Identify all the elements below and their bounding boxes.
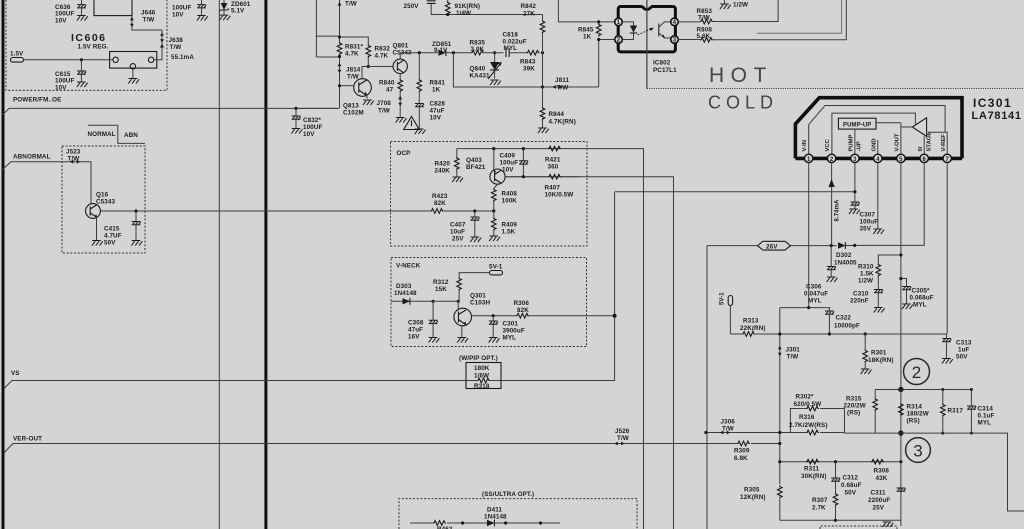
svg-text:T/W: T/W [617,435,629,442]
svg-text:R831*: R831* [345,44,363,51]
resistor R420 [435,149,464,183]
capacitor C310 [850,290,885,313]
resistor R308 [871,459,889,482]
svg-text:100uF: 100uF [860,219,879,226]
svg-text:C415: C415 [104,226,120,233]
resistor R301 [861,332,894,374]
svg-text:8.74mA: 8.74mA [835,199,841,222]
ground: Q16 emitter [92,217,103,245]
svg-text:J301: J301 [786,347,801,354]
svg-text:R317: R317 [948,408,964,415]
resistor R408 [492,184,518,211]
svg-text:R301: R301 [871,350,887,357]
pin 2 of IC301 (VCC) [825,138,836,162]
wire: IC802 pin2 feed [599,40,615,88]
diode D411 1N4148 [484,507,507,527]
svg-text:MYL: MYL [978,420,992,427]
capacitor C818 [503,32,527,58]
ground: Q301 emitter [457,326,468,343]
wire: R831 bypass top link y=36 [316,35,339,37]
svg-text:12K(RN): 12K(RN) [740,494,766,501]
svg-text:15K: 15K [435,286,447,293]
pin 7 of IC301 (V-REF) [941,134,952,163]
svg-text:47: 47 [386,87,394,94]
box: component box top-center (clipped) [94,0,132,16]
wire: rail y=192 from riser to IC301 pin3 [615,191,855,193]
resistor R315 [844,390,878,434]
resistor R313 [730,318,946,337]
svg-text:1N4148: 1N4148 [484,514,507,521]
svg-text:4: 4 [673,20,677,26]
wire: vertical bus x=219 [218,0,220,529]
svg-text:R832: R832 [375,46,391,53]
svg-text:5V-1: 5V-1 [489,264,503,271]
pin 6 of IC301 (0/STAGE) [918,132,933,163]
resistor R310 [858,264,881,290]
wire: pin4 internal stub [877,140,879,154]
svg-text:R840: R840 [379,80,395,87]
optocoupler IC802 PC17L1 body [618,0,675,89]
box: PUMP-UP block [838,118,876,129]
ground: Q840 [490,80,501,85]
svg-text:T/W: T/W [143,17,155,24]
diode D302 1N4005 [834,242,858,266]
resistor R840 [379,79,403,94]
junction: R307 bottom [834,519,837,522]
pin 3 of IC301 (PUMP-UP) [848,134,862,162]
svg-text:V-IN: V-IN [802,140,808,151]
wire: IC802 pin1 feed from top [558,0,615,22]
svg-text:IC301: IC301 [973,96,1012,110]
svg-text:180/2W: 180/2W [907,411,929,418]
svg-text:10uF: 10uF [450,229,465,236]
wire: bottom ground rail y=520.3 [780,519,901,521]
capacitor C314 [967,388,994,435]
transistor Q16 C5343 [86,192,116,219]
svg-text:10000pF: 10000pF [834,323,860,330]
svg-text:R420: R420 [435,161,451,168]
svg-text:C311: C311 [871,490,887,497]
capacitor C615 [55,60,88,92]
svg-text:1/2W: 1/2W [733,2,748,9]
node: 26V supply tag [758,241,791,250]
pin 2 of IC802 [615,36,623,44]
svg-text:Q801: Q801 [393,43,409,50]
wire: bottom rail y=433 out to right edge [706,433,1024,512]
svg-text:1K: 1K [583,34,592,41]
svg-text:C407: C407 [450,222,466,229]
capacitor 250V snubber (clipped at top) [404,1,436,10]
svg-text:GND: GND [871,138,877,151]
svg-text:10K/0.5W: 10K/0.5W [545,192,574,199]
svg-text:25V: 25V [873,505,885,512]
svg-text:47uF: 47uF [430,108,445,115]
svg-text:VS: VS [11,370,20,377]
wire: pin7 drop to C313 rail [946,163,948,334]
svg-text:R305: R305 [744,487,760,494]
wire: base line into Q301 [433,301,458,308]
svg-text:22K(RN): 22K(RN) [740,325,766,332]
svg-text:4.7K: 4.7K [345,51,359,58]
wire: top rail y=14.5 (250V cap to R842) [431,3,542,14]
jumper J306 [720,419,735,435]
transistor Q813 C102M [343,79,371,117]
junction: R835/C818 node [493,51,496,54]
junction: pin5-drop/461 rail [899,460,902,463]
svg-text:4.7K: 4.7K [375,53,389,60]
wire: R835 to C818 [484,52,504,54]
wire: regulator output to J638 riser [154,30,162,60]
symbol: opto coupling arrow [638,28,654,35]
svg-text:82K: 82K [434,200,446,207]
svg-text:0.068uF: 0.068uF [910,295,934,302]
svg-text:C306: C306 [806,284,822,291]
resistor R302* 620/0.5W [790,394,844,434]
resistor R311 [801,459,827,480]
svg-text:220nF: 220nF [850,298,869,305]
svg-text:C308: C308 [408,320,424,327]
junction: pin5/top rail heavy node [898,387,903,392]
junction: D411 cathode node [504,521,507,524]
node: NORMAL/ABN selector [88,125,146,143]
resistor R835 [470,40,486,56]
svg-text:R302*: R302* [796,394,814,401]
svg-text:J708: J708 [377,100,392,107]
svg-text:2.7K/2W(RS): 2.7K/2W(RS) [789,422,828,429]
svg-text:Q16: Q16 [96,192,109,199]
svg-text:2: 2 [830,157,834,163]
svg-text:D302: D302 [836,252,852,259]
svg-text:VCC: VCC [825,138,831,151]
svg-text:T/W: T/W [787,354,799,361]
svg-text:T/W: T/W [170,44,182,51]
svg-text:PUMP: PUMP [848,134,854,151]
junction: R310 tap node [899,253,902,256]
jumper J301 [778,346,800,361]
wire: VS line right of R318 to vertical riser [501,192,615,380]
junction: C832 tap on POWER line [294,107,297,110]
svg-text:C832*: C832* [303,117,321,124]
wire: output top rail y=389.5 [875,389,971,391]
svg-text:V-NECK: V-NECK [396,263,421,270]
svg-text:Q813: Q813 [343,103,359,110]
svg-text:3.0K: 3.0K [471,46,485,53]
svg-text:180K: 180K [474,365,490,372]
svg-text:COLD: COLD [708,93,778,113]
svg-text:C313: C313 [956,340,972,347]
junction: pin1 meets C322 rail [807,306,810,309]
transistor Q403 BF421 [466,157,505,184]
resistor R841 [417,53,445,104]
svg-text:4.7K(RN): 4.7K(RN) [549,119,576,126]
box: SS/ULTRA dashed enclosure [399,499,637,529]
wire: pin7 internal stub [945,132,947,154]
wire: VER-OUT line y=443.5 [4,444,779,453]
svg-text:2: 2 [617,38,621,44]
ground: snubber 1/2W [720,0,748,9]
wire: Q301 collector output y=315.7 [472,315,615,317]
resistor 91K(RN) 1/4W [445,0,480,17]
svg-text:250V: 250V [404,3,420,10]
svg-text:4.7UF: 4.7UF [104,233,122,240]
svg-text:C322: C322 [836,315,852,322]
svg-text:R407: R407 [545,185,561,192]
svg-text:C305*: C305* [912,288,930,295]
svg-text:R311: R311 [804,466,820,473]
svg-text:C102M: C102M [343,110,364,117]
svg-text:50V: 50V [956,354,968,361]
pin 3 of IC802 [671,36,679,44]
svg-text:V-OUT: V-OUT [894,133,900,151]
svg-text:PC17L1: PC17L1 [653,67,677,74]
junction: riser/461 rail [778,460,781,463]
svg-text:220/2W: 220/2W [844,403,866,410]
svg-text:10V: 10V [502,167,514,174]
svg-text:ABN: ABN [124,132,138,139]
wire: pin6 drop to D302 rail [858,163,924,246]
resistor R306 [514,300,530,318]
svg-text:(SS/ULTRA OPT.): (SS/ULTRA OPT.) [482,491,534,498]
svg-text:7: 7 [945,157,949,163]
wire: J811 rail y=87 [453,53,598,87]
svg-text:IC802: IC802 [653,60,671,67]
capacitor C407 [450,211,481,243]
capacitor C409 [500,147,529,178]
ground: J708 bottom [396,118,407,123]
svg-text:J526: J526 [615,428,630,435]
capacitor C307 [849,202,878,233]
svg-text:1N4005: 1N4005 [834,260,857,267]
svg-text:39K: 39K [523,66,535,73]
wire: feeder x=339.5 from top with T/W tag [296,0,357,108]
svg-text:C5343: C5343 [96,199,115,206]
svg-text:MYL: MYL [808,298,822,305]
svg-text:620/0.5W: 620/0.5W [794,401,822,408]
junction: pin5/bottom rail heavy node [898,430,903,435]
junction: C305 tap node [899,277,902,280]
svg-text:3: 3 [853,157,857,163]
junction: 91K bottom node [446,13,449,16]
IC802 internal LED [622,22,637,40]
resistor R316 2.7K/2W(RS) [789,414,845,435]
svg-text:100uF: 100uF [500,160,519,167]
svg-text:J811: J811 [555,77,569,84]
svg-text:R308: R308 [874,468,890,475]
svg-text:VER-OUT: VER-OUT [13,436,42,443]
svg-text:T/W: T/W [347,74,359,81]
svg-text:J646: J646 [141,10,156,17]
junction: Q403 emitter rail node [492,147,495,150]
svg-text:NORMAL: NORMAL [88,131,116,138]
capacitor C832* [291,108,322,138]
svg-text:C103H: C103H [470,300,490,307]
svg-text:3: 3 [913,442,923,461]
jumper J814 [338,63,361,81]
svg-text:C301: C301 [503,321,519,328]
box: V-NECK dashed enclosure [391,258,587,347]
op-amp output stage triangle [912,118,926,137]
pin 1 of IC301 (V-IN) [802,140,813,163]
junction: D411 anode node [461,521,464,524]
junction: C301 node [492,314,495,317]
op-amp IC301 LA78141 outline [795,98,962,159]
wire: 26V line to D302 [707,245,837,247]
svg-text:1K: 1K [432,87,441,94]
svg-text:R318: R318 [474,383,490,390]
junction: SS rail node [539,521,542,524]
node: 1.5V input terminal [10,51,113,63]
capacitor C301 [489,316,525,343]
capacitor C313 [942,334,972,364]
svg-text:C828: C828 [430,101,446,108]
wire: ZD851 cathode to R835 [446,52,471,54]
capacitor C305* [902,287,934,310]
node: circled 2 callout [904,359,930,385]
wire: pin2 internal rail to op-amp top [832,113,916,154]
wire: IC301 inner outline [809,106,945,155]
ground: bottom rail [882,522,893,527]
svg-text:1/4W: 1/4W [456,10,471,17]
symbol: hot-warning triangle [404,117,420,130]
svg-text:BF421: BF421 [466,164,486,171]
svg-text:D303: D303 [396,283,412,290]
svg-text:5.6K: 5.6K [697,33,711,40]
capacitor C415 [104,211,142,247]
junction: Q16 collector node [134,209,137,212]
capacitor C637 [172,0,208,21]
wire: pin6 internal to op-amp output [923,136,925,154]
svg-text:R314: R314 [907,404,923,411]
svg-text:1/2W: 1/2W [858,278,873,285]
capacitor C308 [408,301,439,342]
svg-text:10V: 10V [303,131,315,138]
resistor R853 [678,0,778,24]
wire: Q403 collector line y=176.7 [505,176,548,178]
svg-text:1.5V REG.: 1.5V REG. [78,44,109,51]
resistor R318 180K 1/6W [466,365,501,390]
jumper J526 on VER-OUT line [614,428,629,445]
svg-text:1uF: 1uF [958,347,970,354]
box: POWER/FM.OE dashed enclosure [6,0,167,90]
wire: Q801 collector to ZD851 rail [400,53,438,59]
junction: riser/R313 rail [778,332,781,335]
zener diode ZD851 [432,41,452,56]
svg-text:0.047uF: 0.047uF [804,291,828,298]
svg-text:J638: J638 [169,37,184,44]
svg-text:1: 1 [617,20,621,26]
svg-text:3: 3 [673,38,677,44]
junction: R312/base node [457,300,460,303]
IC301 reference label [972,96,1022,122]
resistor R409 [489,211,517,241]
svg-text:5: 5 [899,157,903,163]
wire: pin5 drop between rails [900,390,902,527]
resistor R317 [941,388,964,435]
wire: POWER/FM.OE line y=108 [3,108,339,115]
svg-text:T/W: T/W [68,155,80,162]
svg-text:5V-1: 5V-1 [720,292,726,305]
svg-text:Q403: Q403 [466,157,482,164]
box: R318 option body [466,363,501,389]
svg-text:R841: R841 [430,80,446,87]
junction: R844 top node [541,85,544,88]
svg-text:1.5K: 1.5K [860,271,874,278]
pin 1 of IC802 [615,18,623,26]
svg-text:D411: D411 [487,507,503,514]
svg-text:16V: 16V [408,334,420,341]
svg-text:STAGE: STAGE [926,132,932,152]
svg-text:27K: 27K [523,11,535,18]
svg-text:0.68uF: 0.68uF [841,482,862,489]
junction: VER-OUT/riser node [778,442,781,445]
svg-text:1N4148: 1N4148 [394,290,417,297]
wire: 26V feeder vertical x=707 [706,246,708,529]
wire: R310 tap from pin5 drop [878,255,901,264]
svg-text:4: 4 [876,157,880,163]
svg-text:MYL: MYL [503,335,517,342]
jumper J638 [160,32,183,51]
svg-text:10V: 10V [55,17,67,24]
svg-text:(W/PIP OPT.): (W/PIP OPT.) [459,355,498,362]
svg-text:IC606: IC606 [71,32,107,44]
node: 5V-1 vertical terminal [720,292,733,334]
svg-text:10V: 10V [430,115,442,122]
junction: pin3/rail node [853,190,856,193]
resistor R305 [740,486,782,502]
wire: pin5 main drop [900,163,902,390]
resistor R845 [578,20,601,41]
svg-text:R423: R423 [432,193,448,200]
svg-text:OCP: OCP [397,150,411,157]
wire: vertical drop x=643.5 from OCP R421 [457,149,644,529]
wire: pin1 drop to C322 rail [808,163,810,308]
svg-text:2200uF: 2200uF [868,497,890,504]
svg-text:25V: 25V [452,236,464,243]
svg-text:T/W: T/W [557,85,569,92]
wire: main riser x=779.8 [779,308,781,521]
svg-text:T/W: T/W [345,1,357,8]
svg-text:0.1uF: 0.1uF [978,413,995,420]
wire: secondary sense line y=33 [757,0,842,33]
svg-text:T/W: T/W [698,15,710,22]
svg-text:C312: C312 [843,475,859,482]
svg-text:10V: 10V [55,84,67,91]
svg-text:30K(RN): 30K(RN) [801,473,827,480]
junction: R831 top node [338,35,341,38]
svg-text:R307: R307 [812,497,828,504]
svg-text:KA431: KA431 [470,73,490,80]
jumper J708 [377,92,403,117]
junction: Q840 tap node [452,51,455,54]
svg-text:C818: C818 [503,32,519,39]
diode D303 1N4148 [391,283,433,305]
capacitor C636 [55,0,88,24]
svg-text:R843: R843 [520,59,536,66]
wire: ABNORMAL input line [3,162,92,204]
ground: regulator common pin [128,69,139,84]
transistor Q840 KA431 [470,53,502,80]
svg-text:91K(RN): 91K(RN) [455,3,481,10]
junction: D303/C308 node [432,300,435,303]
svg-text:1: 1 [807,157,811,163]
svg-text:R845: R845 [578,27,594,34]
svg-text:55.1mA: 55.1mA [171,54,194,61]
box: abnormal-detect dashed enclosure [62,146,145,253]
capacitor C322 [825,308,860,334]
svg-text:T/W: T/W [378,108,390,115]
wire: base link to Q813 [340,85,354,87]
wire: pin3 drop to C307 [854,163,856,202]
